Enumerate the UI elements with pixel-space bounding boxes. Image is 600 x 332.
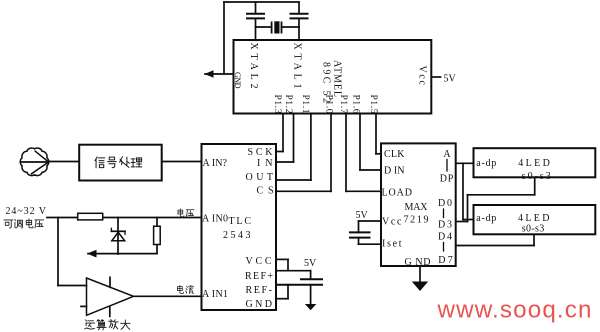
svg-text:TLC: TLC [229, 216, 252, 227]
svg-text:REF-: REF- [246, 285, 273, 296]
svg-text:P1.1: P1.1 [300, 95, 310, 114]
svg-text:A IN0: A IN0 [202, 214, 228, 225]
svg-text:ATMEL: ATMEL [332, 60, 343, 97]
svg-text:www.sooq.cn: www.sooq.cn [437, 297, 592, 324]
svg-text:P1.6: P1.6 [351, 95, 361, 114]
svg-text:P1.0: P1.0 [324, 95, 334, 114]
svg-text:DP: DP [440, 174, 454, 185]
svg-text:24~32 V: 24~32 V [6, 206, 47, 217]
svg-text:4LED: 4LED [518, 158, 550, 169]
svg-text:P1.7: P1.7 [338, 95, 348, 114]
svg-text:CLK: CLK [384, 149, 405, 160]
svg-text:Vcc: Vcc [416, 66, 427, 86]
svg-text:5V: 5V [356, 210, 369, 221]
svg-text:Vcc: Vcc [382, 217, 402, 228]
svg-text:GND: GND [233, 72, 242, 89]
svg-text:SCK: SCK [248, 147, 274, 158]
svg-text:D4: D4 [438, 232, 452, 243]
svg-text:D3: D3 [438, 220, 452, 231]
svg-text:s0-s3: s0-s3 [522, 224, 545, 235]
svg-text:MAX: MAX [405, 202, 429, 213]
svg-text:P1.2: P1.2 [283, 95, 293, 114]
svg-text:IN: IN [257, 158, 273, 169]
svg-text:A: A [443, 149, 451, 160]
svg-text:7219: 7219 [404, 215, 429, 226]
svg-text:a-dp: a-dp [476, 213, 496, 224]
svg-text:a-dp: a-dp [476, 158, 496, 169]
svg-text:Iset: Iset [382, 239, 402, 250]
svg-text:D0: D0 [438, 198, 452, 209]
svg-text:G ND: G ND [405, 257, 431, 268]
svg-text:P1.5: P1.5 [368, 95, 378, 114]
svg-text:OUT: OUT [246, 172, 274, 183]
svg-text:A IN1: A IN1 [202, 289, 228, 300]
svg-text:5V: 5V [304, 258, 317, 269]
svg-text:LOAD: LOAD [382, 188, 413, 199]
svg-text:D IN: D IN [384, 166, 405, 177]
svg-text:5V: 5V [444, 74, 457, 85]
svg-text:A IN?: A IN? [203, 158, 228, 169]
svg-text:P1.3: P1.3 [272, 95, 282, 114]
svg-text:GND: GND [246, 299, 273, 310]
svg-text:VCC: VCC [246, 256, 272, 267]
svg-text:4LED: 4LED [518, 213, 550, 224]
